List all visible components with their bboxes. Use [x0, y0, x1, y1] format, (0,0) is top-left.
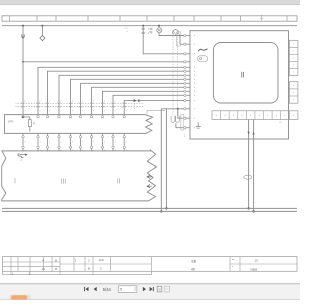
off-page arrow A3	[147, 185, 152, 188]
app top bar	[0, 0, 300, 4]
A1 top pin at x=23	[22, 116, 24, 118]
wire L+ main	[2, 25, 297, 27]
connector X10 contact at x=38	[36, 103, 39, 108]
A1 bottom pin / X11 connector at x=38	[37, 133, 39, 135]
node N3 junction	[177, 108, 179, 110]
wire contact drop	[175, 34, 177, 36]
wire net 10 continued	[139, 100, 184, 102]
A1 bottom pin / X11 connector at x=23	[22, 133, 24, 135]
flow arrows	[248, 132, 255, 135]
A1 top pin at x=102.5	[101, 116, 103, 118]
terminal strip X5/X6 cell marks	[293, 43, 294, 100]
wire stub to diamond D1	[41, 26, 43, 36]
svg-text:B: B	[55, 267, 57, 271]
node K1 junction	[22, 25, 24, 27]
shield marker dashed pair	[173, 34, 177, 116]
bus N rail	[2, 207, 297, 209]
title block columns	[11, 257, 240, 272]
terminal strip X5	[289, 40, 298, 75]
connector X10 contact at x=91.5	[90, 103, 93, 108]
A1 top pin at x=124.2	[123, 116, 125, 118]
A1 bottom pin / X11 connector at x=91.5	[91, 133, 93, 135]
wire net 7	[92, 87, 184, 114]
clamp symbol S1	[198, 49, 207, 51]
wire net 3	[48, 71, 184, 114]
svg-text:10: 10	[42, 267, 46, 271]
title block rows left	[3, 262, 298, 267]
U1 pin at y=87.3	[184, 86, 186, 88]
svg-text:R: R	[33, 122, 35, 126]
resistor R1	[28, 120, 31, 127]
svg-text:B: B	[88, 266, 90, 270]
svg-text:15: 15	[255, 258, 259, 262]
busbar rail X1	[2, 16, 297, 21]
U1 pin at y=75.3	[184, 74, 186, 76]
U1 pin at y=127.7	[184, 127, 186, 129]
connector row X10 dashed lines	[18, 103, 144, 106]
off-page arrow A2	[147, 175, 152, 178]
device mark V3	[118, 178, 120, 183]
diamond connector D1	[40, 36, 45, 41]
wire net 1 (outer)	[23, 26, 184, 115]
wire lamp to node	[159, 33, 180, 36]
A1 top pin at x=113	[112, 116, 114, 118]
title block frame	[3, 257, 298, 272]
toolbar background	[0, 283, 300, 300]
U1 pin at y=91.3	[184, 90, 186, 92]
wire N3 to pin 118	[178, 109, 184, 118]
ground PE	[196, 122, 201, 128]
arrow marker M1	[133, 99, 137, 102]
orange highlight tab	[9, 295, 31, 300]
U1 pin at y=61.8	[184, 61, 186, 63]
device mark V2	[62, 179, 66, 184]
svg-text:5/44: 5/44	[103, 287, 112, 292]
wire riser to pins	[180, 36, 184, 45]
wire PE down 2	[253, 120, 255, 212]
A1 bottom pin / X11 connector at x=80.5	[80, 133, 82, 135]
key switch S1 body	[198, 56, 208, 62]
connector X10 contact at x=70.5	[69, 103, 72, 108]
node on pin 1	[22, 116, 24, 118]
contact box X2	[147, 110, 165, 114]
cable loop markers	[171, 116, 179, 123]
nav next button	[143, 287, 146, 291]
nav prev button	[94, 287, 97, 291]
terminal strip X6	[289, 82, 298, 104]
U1 pin at y=79.3	[184, 78, 186, 80]
U1 pin at y=35.5	[184, 34, 186, 36]
cable tag oval	[244, 175, 252, 179]
svg-text:m: m	[280, 121, 282, 124]
wire net 6	[81, 83, 184, 114]
wire net 4	[59, 75, 184, 114]
A1 top pin at x=59	[58, 116, 60, 118]
U1 pin at y=44.2	[184, 43, 186, 45]
off-page arrows A1	[22, 34, 24, 37]
A1 bottom pin / X11 connector at x=47.5	[47, 133, 49, 135]
svg-text:40: 40	[191, 267, 195, 271]
node N1-bus junction	[160, 210, 162, 212]
bus tap T1	[260, 15, 263, 22]
wire net N1	[161, 109, 183, 212]
connector X10 contact at x=102.5	[101, 103, 104, 108]
title block revision strip	[3, 271, 152, 274]
breaker F1 labels	[148, 28, 149, 29]
node K7 junction	[142, 25, 144, 27]
svg-text:123: 123	[99, 258, 104, 262]
U1 pin at y=67.3	[184, 66, 186, 68]
contactor coil K4	[172, 32, 174, 34]
node K2 junction	[41, 25, 43, 27]
busbar segment ticks	[10, 16, 288, 21]
wire resistor to bottom	[29, 127, 31, 132]
nav last-page button	[150, 287, 154, 291]
page input box	[118, 286, 137, 293]
node K5 junction	[179, 35, 181, 37]
controller U1 outline	[190, 31, 289, 139]
wire to lamp H1	[158, 26, 160, 28]
connector X10 contact at x=47.5	[46, 103, 49, 108]
A1 bottom pin / X11 connector at x=124.2	[123, 133, 125, 135]
lamp H1	[157, 28, 162, 33]
device mark V1	[14, 178, 16, 183]
svg-text:B: B	[55, 258, 57, 262]
connector X10 contact at x=80.5	[79, 103, 82, 108]
U1 pin at y=108.8	[184, 108, 186, 110]
wire net N2	[165, 109, 167, 209]
page layout icon 2	[165, 286, 170, 292]
svg-text:5: 5	[120, 288, 122, 292]
wire net 9	[113, 95, 184, 114]
wire loop to pin 127.7	[176, 123, 184, 128]
connector X10 contact at x=113	[111, 103, 114, 108]
connector shell X4	[181, 115, 184, 130]
node K6 junction	[138, 99, 140, 101]
siren Y1	[18, 154, 24, 158]
svg-text:1PR: 1PR	[8, 119, 15, 123]
wire net 5	[71, 79, 184, 114]
A1 bottom pin / X11 connector at x=59	[58, 133, 60, 135]
page layout icon 1	[157, 286, 162, 292]
nav first-page button	[84, 287, 88, 291]
HMI screen U2	[213, 43, 278, 104]
HMI label	[242, 72, 244, 78]
U1 pin at y=95.3	[184, 94, 186, 96]
shield dashes below M1	[134, 104, 136, 111]
connector shell X3	[177, 32, 181, 46]
PLC module A1 outline	[5, 115, 153, 134]
label dashes near x=127	[125, 28, 127, 33]
contact ticks 21/22	[150, 28, 153, 32]
svg-text:EB: EB	[192, 259, 197, 263]
A1 bottom pin / X11 connector at x=113	[112, 133, 114, 135]
A1 top pin at x=38	[37, 116, 39, 118]
U1 pin at y=83.3	[184, 82, 186, 84]
A1 bottom pin / X11 connector at x=70.5	[70, 133, 72, 135]
A1 bottom pin / X11 connector at x=102.5	[102, 133, 104, 135]
A1 top pin at x=70.5	[69, 116, 71, 118]
U1 pin at y=118.2	[184, 117, 186, 119]
wire to resistor R1	[23, 117, 30, 120]
connector X10 contact at x=124.2	[123, 103, 126, 108]
pin number marks row X10	[16, 100, 127, 142]
field block B1 outline (torn edges)	[2, 150, 157, 201]
A1 top pin at x=47.5	[46, 116, 48, 118]
wire PE down 1	[248, 120, 250, 209]
A1 top pin at x=80.5	[79, 116, 81, 118]
node N2-bus junction	[165, 207, 167, 209]
U1 pin at y=100.6	[184, 99, 186, 101]
connector X10 contact at x=23	[21, 103, 24, 108]
bus PE rail	[2, 210, 297, 212]
breaker F1 drop wire	[143, 26, 183, 54]
wire net 2	[38, 67, 184, 114]
terminal strip X7	[212, 111, 298, 120]
A1 top pin at x=91.5	[90, 116, 92, 118]
svg-text:NBM: NBM	[251, 267, 258, 271]
breaker F1 ticks	[142, 28, 145, 33]
U1 pin at y=53.8	[184, 53, 186, 55]
wire net 10 (inner, analog pair)	[124, 101, 133, 115]
U1 pin at y=71.2	[184, 70, 186, 72]
connector X10 contact at x=59	[57, 103, 60, 108]
node K3 junction	[158, 25, 160, 27]
wire net 8	[103, 91, 184, 114]
